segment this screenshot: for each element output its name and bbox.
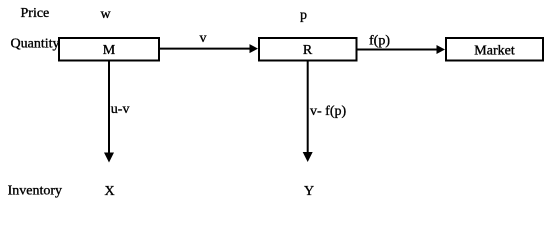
svg-text:Quantity: Quantity bbox=[11, 37, 60, 52]
svg-text:Y: Y bbox=[304, 184, 314, 199]
svg-text:Inventory: Inventory bbox=[8, 184, 62, 199]
svg-text:R: R bbox=[303, 43, 313, 58]
svg-text:f(p): f(p) bbox=[369, 34, 390, 49]
svg-text:M: M bbox=[103, 43, 116, 58]
box R bbox=[259, 38, 357, 61]
svg-text:u-v: u-v bbox=[111, 102, 130, 117]
wire R to Market bbox=[358, 49, 438, 51]
svg-text:v- f(p): v- f(p) bbox=[310, 104, 346, 119]
wire M down bbox=[108, 61, 110, 153]
svg-text:v: v bbox=[200, 31, 207, 46]
svg-text:w: w bbox=[101, 7, 112, 22]
box Market bbox=[446, 38, 543, 61]
svg-text:Market: Market bbox=[474, 44, 515, 59]
wire R down bbox=[307, 61, 309, 153]
svg-text:Price: Price bbox=[21, 6, 50, 21]
box M bbox=[59, 38, 159, 61]
svg-text:X: X bbox=[105, 184, 115, 199]
svg-text:p: p bbox=[300, 8, 307, 23]
wire M to R bbox=[160, 48, 251, 50]
